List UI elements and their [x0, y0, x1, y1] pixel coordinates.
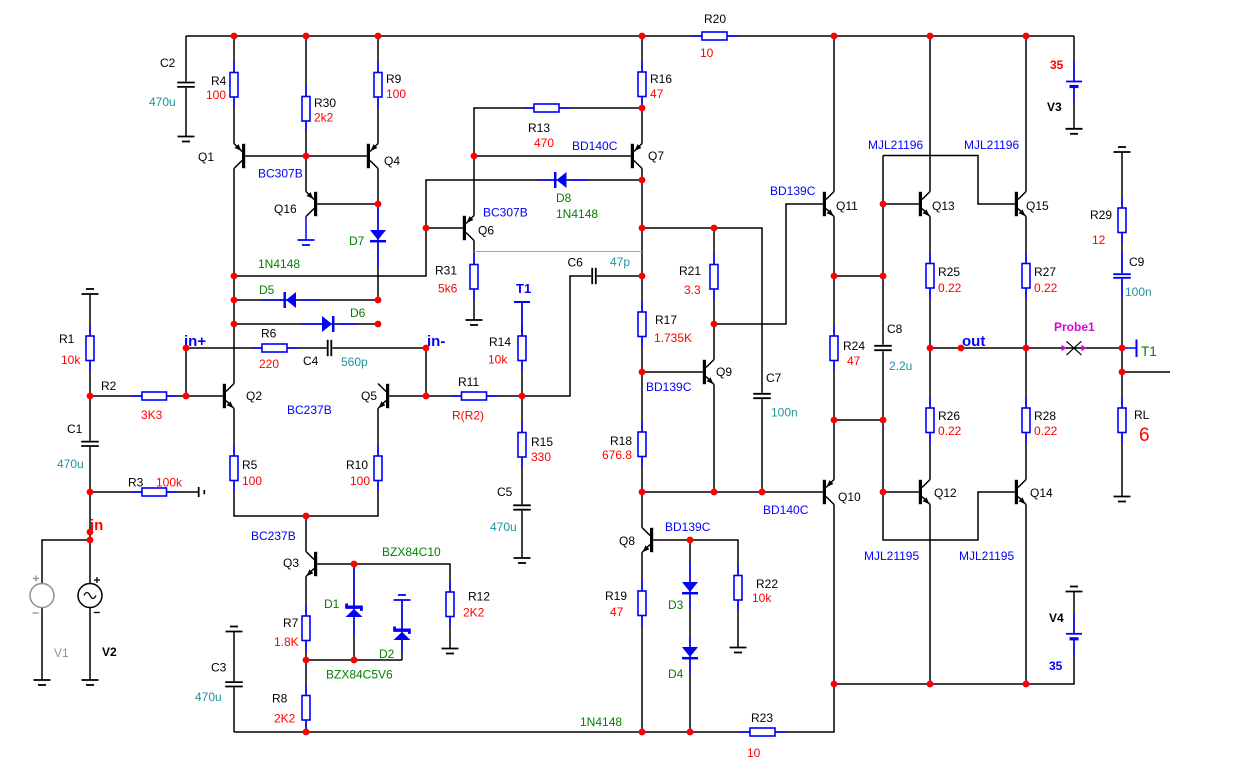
svg-text:2k2: 2k2	[314, 111, 334, 125]
wire Q10 base row	[642, 491, 823, 493]
label 1N4148 D3 D4	[580, 715, 622, 729]
wire Q16 emitter	[305, 156, 307, 192]
svg-text:R13: R13	[528, 121, 550, 135]
svg-text:BD140C: BD140C	[763, 503, 809, 517]
svg-text:C8: C8	[887, 322, 903, 336]
label MJL21196 Q15	[964, 138, 1019, 152]
wire Q5 base	[389, 395, 426, 397]
svg-text:R15: R15	[531, 435, 553, 449]
svg-text:Q9: Q9	[716, 365, 732, 379]
svg-text:R27: R27	[1034, 265, 1056, 279]
ground V3	[1066, 129, 1083, 134]
svg-text:R29: R29	[1090, 208, 1112, 222]
resistor R8	[272, 685, 310, 732]
svg-text:1.735K: 1.735K	[654, 331, 692, 345]
capacitor C6	[568, 255, 631, 284]
transistor Q14	[1015, 480, 1053, 505]
wire zener bottom row	[306, 659, 402, 661]
capacitor C1	[57, 422, 100, 471]
wire diff pair emitters	[234, 409, 378, 517]
svg-text:560p: 560p	[341, 355, 368, 369]
diode D4	[668, 637, 698, 681]
svg-text:BC237B: BC237B	[251, 529, 296, 543]
label BD139C Q9	[646, 380, 692, 394]
svg-text:0.22: 0.22	[938, 281, 962, 295]
diode D8	[537, 172, 598, 221]
voltage source V1	[30, 576, 69, 661]
wire D6 row	[234, 323, 378, 325]
resistor R26	[926, 397, 962, 444]
svg-text:out: out	[962, 333, 985, 350]
svg-text:330: 330	[531, 450, 551, 464]
node in+	[184, 333, 206, 350]
label BC307B Q1 Q4	[258, 167, 303, 181]
label BD139C Q11	[770, 184, 816, 198]
wire Q9 base	[642, 371, 703, 373]
svg-text:V1: V1	[54, 646, 69, 660]
wire R3 row	[90, 491, 199, 493]
wire D3 D4 branch	[689, 540, 691, 732]
wire R15 C5 branch	[521, 396, 523, 558]
svg-text:2K2: 2K2	[463, 606, 485, 620]
resistor R22	[734, 565, 778, 612]
svg-text:0.22: 0.22	[1034, 424, 1058, 438]
svg-text:10k: 10k	[61, 353, 81, 367]
svg-text:100: 100	[350, 474, 370, 488]
ground RL	[1114, 497, 1131, 502]
svg-text:R30: R30	[314, 96, 336, 110]
svg-text:D2: D2	[379, 647, 395, 661]
svg-text:R10: R10	[346, 458, 368, 472]
svg-text:6: 6	[1139, 425, 1150, 446]
resistor R3	[128, 476, 183, 497]
ground R22	[730, 648, 747, 653]
node in-	[427, 333, 445, 350]
svg-text:R17: R17	[655, 313, 677, 327]
wire R21 branch	[713, 228, 715, 360]
svg-text:in-: in-	[427, 333, 445, 350]
svg-text:D6: D6	[350, 306, 366, 320]
resistor R19	[605, 580, 646, 627]
svg-text:BZX84C10: BZX84C10	[382, 545, 441, 559]
wire RL branch	[1121, 348, 1123, 497]
svg-text:R9: R9	[386, 72, 402, 86]
svg-text:Probe1: Probe1	[1054, 320, 1095, 334]
resistor R11	[451, 375, 498, 423]
wire Q16 collector lead	[305, 217, 307, 241]
svg-text:Q2: Q2	[246, 389, 262, 403]
svg-text:Q6: Q6	[478, 224, 494, 238]
wire Q4 collector	[377, 169, 379, 205]
svg-text:35: 35	[1050, 58, 1064, 72]
resistor R9	[374, 62, 406, 109]
transistor Q7	[631, 144, 665, 169]
resistor R6	[251, 327, 298, 372]
svg-text:470u: 470u	[195, 690, 222, 704]
voltage source V4	[1049, 611, 1083, 673]
label BC307B Q6	[483, 206, 528, 220]
svg-text:0.22: 0.22	[938, 424, 962, 438]
resistor R2	[101, 379, 178, 422]
svg-text:R12: R12	[468, 590, 490, 604]
label BZX84C5V6	[326, 668, 393, 682]
svg-text:100: 100	[386, 87, 406, 101]
wire R25 branch	[929, 217, 931, 349]
wire R30 branch	[305, 36, 307, 156]
svg-text:BD139C: BD139C	[665, 520, 711, 534]
svg-text:Q16: Q16	[274, 202, 297, 216]
svg-text:47p: 47p	[610, 255, 630, 269]
svg-text:3K3: 3K3	[141, 408, 163, 422]
transistor Q12	[919, 480, 957, 505]
svg-text:Q5: Q5	[361, 389, 377, 403]
capacitor C3	[195, 661, 244, 705]
wire C2 branch	[185, 36, 187, 137]
svg-text:C6: C6	[568, 256, 584, 270]
transistor Q10	[823, 480, 861, 505]
svg-text:R20: R20	[704, 12, 726, 26]
resistor R30	[302, 86, 336, 133]
wire R4 branch	[233, 36, 235, 144]
svg-text:1N4148: 1N4148	[556, 207, 598, 221]
wire R24 column	[833, 217, 835, 480]
svg-text:2.2u: 2.2u	[889, 359, 912, 373]
svg-text:5k6: 5k6	[438, 282, 458, 296]
svg-text:R21: R21	[679, 264, 701, 278]
svg-text:T1: T1	[1141, 344, 1157, 359]
wire Q13 base	[883, 203, 919, 205]
svg-text:R19: R19	[605, 589, 627, 603]
svg-text:470: 470	[534, 136, 554, 150]
label MJL21195 Q12	[864, 549, 919, 563]
svg-text:V2: V2	[102, 645, 117, 659]
ground R1 top	[82, 289, 99, 294]
wire Q11 emitter link	[834, 275, 883, 277]
label BD140C Q10	[763, 503, 809, 517]
svg-text:C4: C4	[303, 354, 319, 368]
svg-text:Q7: Q7	[648, 149, 664, 163]
svg-text:R18: R18	[610, 434, 632, 448]
transistor Q13	[919, 192, 955, 217]
svg-text:470u: 470u	[57, 457, 84, 471]
svg-text:R7: R7	[283, 616, 299, 630]
transistor Q16	[274, 192, 317, 217]
ground Q16	[298, 240, 315, 245]
wire R9 branch	[377, 36, 379, 144]
wire Q9 emitter	[713, 385, 715, 493]
diode D1 zener	[324, 566, 363, 636]
wire Q6 collector to R31	[473, 241, 475, 321]
wire output stage V- rail	[834, 592, 1074, 685]
transistor Q6	[463, 216, 495, 241]
wire V1 branch	[42, 540, 90, 584]
svg-text:D4: D4	[668, 667, 684, 681]
svg-text:Q14: Q14	[1030, 486, 1053, 500]
wire Q3 base row	[317, 564, 450, 648]
diode D6	[302, 306, 366, 332]
label BD140C Q7	[572, 139, 618, 153]
capacitor C7	[753, 371, 798, 420]
ground R12	[442, 649, 459, 654]
diode D7	[349, 205, 386, 268]
wire Q12 emitter	[929, 505, 931, 685]
svg-text:MJL21196: MJL21196	[868, 138, 923, 152]
wire Q8 emitter R19	[641, 553, 643, 733]
svg-text:BZX84C5V6: BZX84C5V6	[326, 668, 393, 682]
resistor R23	[739, 711, 786, 760]
svg-text:1N4148: 1N4148	[580, 715, 622, 729]
svg-text:R3: R3	[128, 476, 144, 490]
wire input column	[89, 294, 91, 584]
wire Q12 base	[883, 491, 919, 493]
svg-text:47: 47	[650, 87, 664, 101]
resistor R24	[830, 325, 865, 372]
svg-text:R16: R16	[650, 72, 672, 86]
svg-text:100: 100	[242, 474, 262, 488]
svg-text:R2: R2	[101, 379, 117, 393]
wire out row	[930, 347, 1122, 349]
wire Q16 base	[317, 203, 378, 205]
resistor R12	[446, 581, 490, 628]
svg-text:47: 47	[847, 354, 861, 368]
svg-text:MJL21195: MJL21195	[959, 549, 1014, 563]
label BD139C Q8	[665, 520, 711, 534]
transistor Q8	[619, 528, 653, 553]
wire Q14 emitter	[1025, 505, 1027, 685]
wire D1 branch	[353, 564, 355, 660]
svg-text:BC237B: BC237B	[287, 403, 332, 417]
wire grayed-out	[474, 251, 642, 253]
wire Q1 collector column	[233, 169, 235, 384]
svg-text:R26: R26	[938, 409, 960, 423]
svg-text:R11: R11	[458, 375, 479, 389]
svg-text:2K2: 2K2	[274, 712, 296, 726]
wire VAS column	[641, 169, 643, 528]
wire R21 C7 row	[642, 228, 762, 492]
voltage source V3	[1047, 58, 1083, 114]
svg-text:10k: 10k	[488, 353, 508, 367]
svg-text:R6: R6	[261, 327, 277, 341]
svg-text:R5: R5	[242, 458, 258, 472]
label BC237B Q2 Q5	[287, 403, 332, 417]
ground R3 jumper	[199, 487, 205, 497]
label MJL21196 Q13	[868, 138, 923, 152]
label 1N4148 diodes D5 D6	[258, 257, 300, 271]
svg-text:BC307B: BC307B	[258, 167, 303, 181]
ground V2	[82, 680, 99, 685]
transistor Q3	[283, 552, 317, 577]
svg-text:1N4148: 1N4148	[258, 257, 300, 271]
svg-text:R22: R22	[756, 577, 778, 591]
svg-text:100n: 100n	[1125, 285, 1152, 299]
wire Q3 collector	[305, 516, 307, 552]
svg-text:R(R2): R(R2)	[452, 409, 484, 423]
wire bottom V- rail	[234, 505, 834, 733]
transistor Q11	[823, 192, 858, 217]
svg-text:Q10: Q10	[838, 490, 861, 504]
ground V4 top	[1066, 587, 1083, 592]
svg-text:C7: C7	[766, 371, 782, 385]
diode D5	[259, 283, 320, 308]
wire R13 loop	[474, 108, 642, 156]
resistor R28	[1022, 397, 1058, 444]
svg-text:C5: C5	[497, 485, 513, 499]
diode D2 zener	[379, 600, 411, 661]
resistor R5	[230, 445, 262, 492]
svg-text:R25: R25	[938, 265, 960, 279]
svg-text:D7: D7	[349, 234, 365, 248]
test point T1 left	[514, 281, 531, 336]
resistor R27	[1022, 253, 1058, 300]
svg-text:R14: R14	[489, 335, 511, 349]
resistor R31	[435, 254, 478, 301]
svg-text:R1: R1	[59, 332, 75, 346]
capacitor C5	[490, 485, 532, 534]
svg-text:676.8: 676.8	[602, 448, 632, 462]
resistor R18	[602, 421, 646, 468]
svg-text:0.22: 0.22	[1034, 281, 1058, 295]
transistor Q1	[198, 144, 245, 169]
svg-text:MJL21196: MJL21196	[964, 138, 1019, 152]
ground R31	[466, 320, 483, 325]
svg-text:BD139C: BD139C	[646, 380, 692, 394]
wire R11 row to C6	[426, 276, 642, 396]
resistor R13	[523, 104, 570, 150]
capacitor C2	[149, 56, 196, 109]
ground C2	[178, 137, 195, 142]
svg-text:10: 10	[747, 746, 761, 760]
transistor Q4	[367, 144, 401, 169]
resistor R14	[488, 325, 526, 372]
wire R26 branch	[929, 348, 931, 480]
svg-text:C9: C9	[1129, 255, 1145, 269]
wire V3 branch	[1073, 36, 1075, 129]
svg-text:12: 12	[1092, 233, 1106, 247]
resistor R17	[638, 301, 692, 348]
svg-text:C3: C3	[211, 661, 227, 675]
resistor R7	[274, 605, 310, 652]
wire Q3 emitter R7 R8	[305, 577, 307, 733]
node in	[90, 517, 103, 534]
wire top V+ rail	[186, 35, 1074, 37]
transistor Q5	[361, 384, 389, 409]
svg-text:Q13: Q13	[932, 199, 955, 213]
ground V1	[34, 680, 51, 685]
wire D5 row	[234, 299, 378, 301]
svg-text:R31: R31	[435, 264, 457, 278]
resistor R29	[1090, 197, 1126, 247]
wire V2 to ground	[89, 608, 91, 681]
wire R28 branch	[1025, 348, 1027, 480]
diode D3	[668, 562, 698, 612]
voltage source V2	[78, 577, 117, 659]
svg-text:MJL21195: MJL21195	[864, 549, 919, 563]
svg-text:220: 220	[259, 357, 279, 371]
svg-text:Q12: Q12	[934, 486, 957, 500]
wire D7 branch	[377, 204, 379, 300]
wire Q6 emitter	[473, 156, 475, 216]
svg-text:D5: D5	[259, 283, 275, 297]
wire Q13 collector	[929, 36, 931, 192]
svg-text:10: 10	[700, 46, 714, 60]
wire R16 branch	[641, 36, 643, 144]
label BZX84C10	[382, 545, 441, 559]
svg-text:V4: V4	[1049, 611, 1064, 625]
wire Q6 base	[426, 227, 463, 229]
transistor Q15	[1015, 192, 1049, 217]
wire V1 to ground	[41, 608, 43, 681]
wire D2 branch	[401, 600, 403, 660]
wire C9 R29 branch	[1121, 152, 1123, 348]
svg-text:Q1: Q1	[198, 150, 214, 164]
capacitor C9	[1113, 252, 1152, 299]
wire node row to D8 row	[234, 180, 642, 276]
resistor R21	[679, 254, 718, 301]
svg-text:35: 35	[1049, 659, 1063, 673]
svg-text:Q15: Q15	[1026, 199, 1049, 213]
svg-text:R8: R8	[272, 692, 288, 706]
ground D2 top	[394, 595, 411, 600]
svg-text:Q8: Q8	[619, 534, 635, 548]
wire Q7 base	[474, 155, 631, 157]
svg-text:Q4: Q4	[384, 154, 400, 168]
svg-text:R4: R4	[211, 74, 227, 88]
svg-text:470u: 470u	[149, 95, 176, 109]
wire stub right of RL	[1122, 371, 1170, 373]
svg-text:C2: C2	[160, 56, 176, 70]
wire C3 branch	[233, 632, 235, 733]
test point T1 right	[1122, 340, 1157, 360]
probe Probe1	[1054, 320, 1095, 355]
svg-text:BD140C: BD140C	[572, 139, 618, 153]
transistor Q2	[223, 384, 263, 409]
resistor R15	[518, 422, 553, 469]
svg-text:Q3: Q3	[283, 556, 299, 570]
resistor R16	[638, 61, 672, 108]
label BC237B Q3	[251, 529, 296, 543]
svg-text:R28: R28	[1034, 409, 1056, 423]
resistor R4	[206, 62, 238, 109]
label MJL21195 Q14	[959, 549, 1014, 563]
svg-text:100n: 100n	[771, 406, 798, 420]
wire Q1-Q4 base link	[245, 155, 367, 157]
node out	[962, 333, 985, 350]
wire in+ net	[186, 348, 426, 396]
svg-text:R24: R24	[843, 339, 865, 353]
capacitor C8	[874, 322, 913, 373]
resistor R20	[691, 12, 738, 60]
wire R27 branch	[1025, 217, 1027, 349]
resistor R10	[346, 445, 382, 492]
wire Q8 base to R22	[653, 540, 738, 648]
svg-text:D3: D3	[668, 598, 684, 612]
capacitor C4	[303, 340, 368, 369]
resistor R1	[59, 325, 94, 372]
wire R2 row	[90, 395, 186, 397]
ground C5	[514, 558, 531, 563]
wire Q15 base path	[883, 156, 1015, 205]
svg-text:Q11: Q11	[836, 199, 858, 213]
wire R24 bottom link	[834, 419, 883, 421]
ground R29 top	[1114, 147, 1131, 152]
wire Q15 collector	[1025, 36, 1027, 192]
wire Q11 collector	[833, 36, 835, 192]
svg-text:D1: D1	[324, 597, 340, 611]
svg-text:100: 100	[206, 88, 226, 102]
svg-text:470u: 470u	[490, 520, 517, 534]
svg-text:1.8K: 1.8K	[274, 635, 299, 649]
resistor RL	[1118, 397, 1150, 446]
